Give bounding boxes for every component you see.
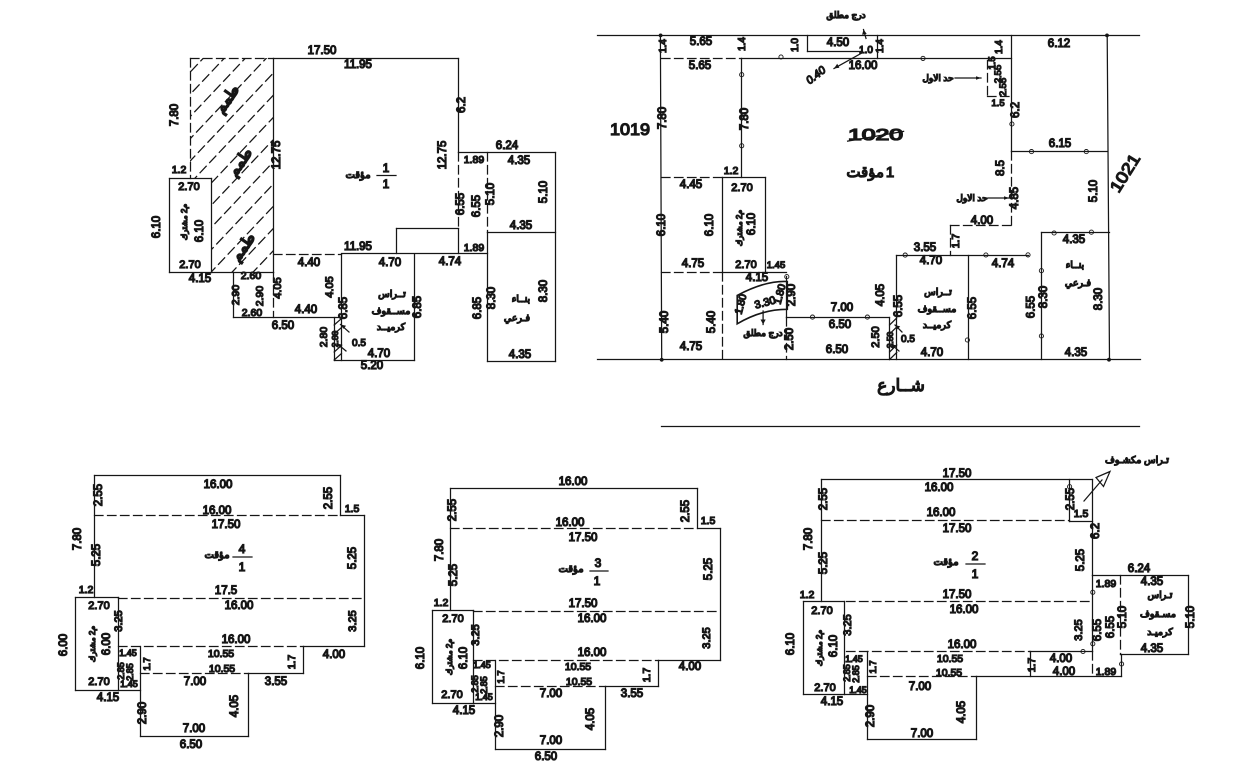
plan3 dashed line 2 bbox=[474, 611, 721, 613]
planA wall hatch ticks bbox=[334, 319, 341, 326]
plan2 dashed line 4 bbox=[868, 676, 977, 678]
svg-text:5.40: 5.40 bbox=[706, 311, 718, 333]
planA line 19 bbox=[234, 317, 343, 319]
plan2 line 18 bbox=[803, 602, 805, 695]
plan2 line 4 bbox=[1092, 480, 1094, 576]
svg-text:6.10: 6.10 bbox=[151, 216, 163, 238]
svg-text:5.25: 5.25 bbox=[818, 552, 830, 574]
svg-text:1.0: 1.0 bbox=[790, 38, 801, 52]
svg-text:2.90: 2.90 bbox=[494, 715, 506, 737]
svg-text:1.4: 1.4 bbox=[994, 40, 1005, 54]
svg-text:2.70: 2.70 bbox=[178, 181, 199, 193]
svg-text:8.5: 8.5 bbox=[995, 160, 1007, 176]
planB line 14 bbox=[722, 178, 724, 273]
svg-text:1.45: 1.45 bbox=[845, 654, 863, 664]
planA dashed line 2 bbox=[190, 59, 192, 179]
svg-text:1.7: 1.7 bbox=[950, 234, 962, 249]
svg-text:2.55: 2.55 bbox=[447, 499, 459, 521]
planA dashed line 1 bbox=[191, 58, 274, 60]
planB dashed line 2 bbox=[987, 61, 989, 97]
svg-text:6.12: 6.12 bbox=[1048, 38, 1070, 50]
svg-text:6.10: 6.10 bbox=[704, 214, 716, 236]
planA line 18 bbox=[233, 273, 235, 318]
svg-text:6.10: 6.10 bbox=[785, 633, 797, 655]
svg-text:4.75: 4.75 bbox=[680, 341, 702, 353]
svg-text:4.85: 4.85 bbox=[1009, 187, 1021, 209]
planB line 23 bbox=[787, 317, 890, 319]
planB boundary dot bbox=[1105, 34, 1109, 38]
plan4 dashed line 2 bbox=[119, 598, 365, 600]
svg-text:7.00: 7.00 bbox=[909, 681, 931, 693]
svg-text:4.50: 4.50 bbox=[827, 37, 849, 49]
planB curved stair bbox=[737, 281, 787, 323]
svg-text:8.30: 8.30 bbox=[1093, 288, 1105, 310]
planB 0.5 arrows bbox=[895, 325, 902, 332]
svg-text:10.55: 10.55 bbox=[565, 661, 591, 673]
svg-text:5.10: 5.10 bbox=[1088, 180, 1100, 202]
svg-text:1.7: 1.7 bbox=[1026, 658, 1038, 673]
plan2 line 6 bbox=[1188, 576, 1190, 655]
svg-text:7.80: 7.80 bbox=[434, 539, 446, 561]
svg-text:1.2: 1.2 bbox=[434, 597, 449, 609]
plan2 line 9 bbox=[1092, 576, 1094, 652]
svg-text:2.90: 2.90 bbox=[137, 702, 149, 724]
plan4 line 10 bbox=[140, 647, 142, 737]
svg-text:4.70: 4.70 bbox=[920, 255, 942, 267]
planB line 5 bbox=[1107, 35, 1109, 359]
svg-text:7.80: 7.80 bbox=[657, 107, 669, 129]
plan3 line 5 bbox=[659, 660, 721, 662]
plan2 line 7 bbox=[1121, 654, 1189, 656]
plan3 line 9 bbox=[496, 749, 606, 751]
svg-text:1.89: 1.89 bbox=[1096, 666, 1117, 678]
svg-text:4.45: 4.45 bbox=[680, 179, 702, 191]
plan2 survey mark bbox=[1068, 485, 1072, 489]
svg-text:6.15: 6.15 bbox=[1049, 138, 1071, 150]
svg-text:3: 3 bbox=[595, 556, 602, 570]
svg-text:م2 مشترك: م2 مشترك bbox=[445, 639, 454, 676]
svg-text:4.15: 4.15 bbox=[97, 692, 119, 704]
svg-text:12.75: 12.75 bbox=[271, 141, 283, 170]
planB dashed line 9 bbox=[722, 273, 724, 360]
svg-text:10.55: 10.55 bbox=[209, 663, 235, 675]
svg-text:8.30: 8.30 bbox=[538, 280, 550, 302]
planB survey mark bbox=[921, 56, 925, 60]
svg-text:1.7: 1.7 bbox=[286, 655, 298, 670]
planB line 4 bbox=[660, 35, 661, 359]
svg-text:11.95: 11.95 bbox=[344, 59, 372, 71]
svg-text:شــارع: شــارع bbox=[877, 376, 925, 396]
svg-text:كرميــد: كرميــد bbox=[377, 322, 406, 333]
svg-text:5.10: 5.10 bbox=[1117, 606, 1129, 628]
svg-text:1.5: 1.5 bbox=[991, 98, 1004, 109]
svg-text:16.00: 16.00 bbox=[556, 517, 585, 529]
plan3 line 13 bbox=[432, 611, 434, 704]
svg-text:1: 1 bbox=[383, 177, 390, 191]
plan4 line 12 bbox=[76, 597, 119, 599]
plan2 line 2 bbox=[1069, 480, 1071, 522]
planA line 3 bbox=[459, 152, 556, 154]
svg-text:3.55: 3.55 bbox=[265, 676, 287, 688]
plan4 line 4 bbox=[364, 516, 366, 647]
svg-text:1.45: 1.45 bbox=[475, 692, 493, 702]
svg-text:1.45: 1.45 bbox=[849, 685, 867, 695]
svg-text:6.55: 6.55 bbox=[893, 295, 905, 317]
svg-text:7.00: 7.00 bbox=[540, 735, 562, 747]
svg-text:1.7: 1.7 bbox=[496, 670, 507, 683]
svg-text:4.35: 4.35 bbox=[508, 155, 530, 167]
svg-text:2.70: 2.70 bbox=[814, 682, 835, 694]
svg-text:2.60: 2.60 bbox=[242, 307, 263, 319]
planB line 15 bbox=[765, 178, 767, 273]
svg-text:2.55: 2.55 bbox=[323, 487, 335, 509]
planB line 18 bbox=[1042, 232, 1110, 234]
plan2 line 10 bbox=[1030, 651, 1093, 653]
svg-text:4.70: 4.70 bbox=[379, 257, 401, 269]
svg-text:فـرعي: فـرعي bbox=[504, 313, 531, 324]
planB dashed line 3 bbox=[988, 96, 1012, 98]
svg-text:6.10: 6.10 bbox=[194, 220, 206, 242]
planA hatch dashed diagonals bbox=[0, 30, 629, 305]
planB survey mark bbox=[1052, 231, 1056, 235]
svg-text:1.89: 1.89 bbox=[464, 154, 485, 166]
plan3 dashed line 4 bbox=[496, 686, 606, 688]
plan2 line 1 bbox=[822, 479, 1093, 481]
plan2 survey mark bbox=[1081, 649, 1085, 653]
svg-text:4.35: 4.35 bbox=[1063, 234, 1085, 246]
svg-text:1.7: 1.7 bbox=[641, 668, 653, 683]
plan2 line 16 bbox=[845, 694, 868, 696]
planB dashed line 8 bbox=[662, 272, 723, 274]
svg-text:4.00: 4.00 bbox=[1050, 653, 1072, 665]
svg-text:11.95: 11.95 bbox=[344, 241, 372, 253]
planB line 22 bbox=[889, 318, 891, 360]
planB survey mark bbox=[1010, 122, 1014, 126]
planB dashed line 5 bbox=[951, 225, 1012, 227]
svg-text:2.90: 2.90 bbox=[254, 286, 266, 307]
planB boundary dot bbox=[660, 358, 664, 362]
planB survey mark bbox=[810, 315, 814, 319]
svg-text:3.25: 3.25 bbox=[113, 610, 125, 631]
svg-text:1.5: 1.5 bbox=[701, 515, 716, 527]
planB line 1 bbox=[598, 35, 1140, 37]
svg-text:1.45: 1.45 bbox=[767, 260, 786, 271]
planB line 9 bbox=[808, 51, 862, 53]
planA dashed line 4 bbox=[487, 153, 489, 233]
plan2 line 15 bbox=[976, 677, 978, 740]
planB dashed line 6 bbox=[950, 226, 952, 256]
svg-text:4.15: 4.15 bbox=[189, 273, 211, 285]
svg-text:1.4: 1.4 bbox=[737, 37, 748, 51]
svg-text:4.05: 4.05 bbox=[229, 695, 241, 717]
svg-text:1: 1 bbox=[594, 574, 601, 588]
plan2 dashed line 6 bbox=[1092, 652, 1094, 677]
svg-text:5.25: 5.25 bbox=[448, 564, 460, 586]
plan2 line 20 bbox=[804, 694, 845, 696]
plan3 line 15 bbox=[433, 703, 474, 705]
svg-text:2.50: 2.50 bbox=[784, 328, 796, 350]
svg-text:5.25: 5.25 bbox=[1075, 549, 1087, 571]
svg-text:2.55: 2.55 bbox=[680, 500, 692, 522]
svg-text:8.30: 8.30 bbox=[1038, 286, 1050, 308]
planA line 14 bbox=[170, 178, 212, 180]
svg-text:16.00: 16.00 bbox=[849, 60, 878, 72]
svg-text:تـراس مكشـوف: تـراس مكشـوف bbox=[1105, 455, 1169, 466]
svg-text:5.25: 5.25 bbox=[703, 558, 715, 580]
plan3 line 16 bbox=[450, 489, 452, 611]
svg-text:مؤقت: مؤقت bbox=[345, 170, 370, 181]
svg-text:16.00: 16.00 bbox=[578, 613, 607, 625]
planA line 21 bbox=[414, 255, 416, 361]
planA line 16 bbox=[211, 179, 213, 273]
planB boundary dot bbox=[659, 34, 663, 38]
svg-text:2.90: 2.90 bbox=[230, 285, 242, 306]
plan4 line 7 bbox=[249, 673, 304, 675]
svg-text:6.2: 6.2 bbox=[1010, 102, 1022, 118]
plan4 line 8 bbox=[248, 674, 250, 737]
svg-text:3.55: 3.55 bbox=[621, 688, 643, 700]
planA line 4 bbox=[555, 153, 557, 362]
svg-text:4.35: 4.35 bbox=[1065, 347, 1087, 359]
planA line 2 bbox=[458, 59, 460, 153]
plan3 line 11 bbox=[474, 703, 496, 705]
svg-text:1.89: 1.89 bbox=[1096, 578, 1117, 590]
planA line 11 bbox=[342, 253, 488, 255]
svg-text:فـرعي: فـرعي bbox=[1065, 278, 1092, 289]
svg-text:1: 1 bbox=[972, 567, 979, 581]
planB survey mark bbox=[984, 253, 988, 257]
planB survey mark bbox=[1039, 269, 1043, 273]
svg-text:3.25: 3.25 bbox=[842, 614, 854, 635]
svg-text:5.10: 5.10 bbox=[538, 181, 550, 203]
planB line 2 bbox=[598, 359, 1141, 361]
plan4 line 3 bbox=[341, 515, 365, 517]
plan4 line 11 bbox=[119, 690, 141, 692]
svg-text:5.65: 5.65 bbox=[689, 60, 711, 72]
svg-text:16.00: 16.00 bbox=[927, 507, 956, 519]
svg-text:5.10: 5.10 bbox=[1185, 606, 1197, 628]
svg-text:2.85: 2.85 bbox=[851, 665, 861, 683]
svg-text:4.74: 4.74 bbox=[992, 258, 1015, 270]
svg-text:6.00: 6.00 bbox=[58, 634, 70, 656]
planA line 8 bbox=[397, 228, 459, 230]
svg-text:درج مطلق: درج مطلق bbox=[743, 328, 782, 339]
svg-text:4.15: 4.15 bbox=[821, 696, 843, 708]
planB wall ticks bbox=[890, 318, 897, 325]
svg-text:2.70: 2.70 bbox=[811, 605, 832, 617]
svg-text:بنــاء: بنــاء bbox=[1066, 260, 1084, 271]
svg-text:4.05: 4.05 bbox=[875, 284, 887, 306]
plan3 dashed line 3 bbox=[474, 660, 659, 662]
svg-text:16.00: 16.00 bbox=[204, 479, 233, 491]
plan3 line 7 bbox=[606, 686, 659, 688]
svg-text:16.00: 16.00 bbox=[925, 482, 954, 494]
planA line 10 bbox=[458, 229, 460, 254]
svg-text:4: 4 bbox=[239, 542, 246, 556]
plan2 line 19 bbox=[844, 602, 846, 695]
svg-text:6.50: 6.50 bbox=[826, 344, 848, 356]
plan2 line 17 bbox=[804, 601, 845, 603]
planB survey mark bbox=[779, 55, 783, 59]
svg-text:2.70: 2.70 bbox=[735, 259, 756, 271]
plan2 dashed line 3 bbox=[847, 651, 1030, 653]
svg-text:3.25: 3.25 bbox=[470, 624, 482, 645]
svg-text:6.85: 6.85 bbox=[472, 297, 484, 319]
plan3 dashed line 1 bbox=[451, 528, 698, 530]
svg-text:4.15: 4.15 bbox=[453, 705, 475, 717]
svg-text:4.70: 4.70 bbox=[368, 348, 390, 360]
plan3 line 6 bbox=[658, 661, 660, 687]
svg-text:10.55: 10.55 bbox=[566, 676, 592, 688]
svg-text:7.00: 7.00 bbox=[184, 676, 206, 688]
planB boundary note1 arrow bbox=[955, 77, 981, 79]
planB boundary note2 arrow bbox=[988, 197, 1009, 199]
plan2 line 5 bbox=[1093, 575, 1189, 577]
planA dashed line 6 bbox=[273, 273, 275, 318]
plan2 line 3 bbox=[1070, 521, 1093, 523]
svg-text:17.50: 17.50 bbox=[212, 519, 241, 531]
svg-text:5.25: 5.25 bbox=[347, 547, 359, 569]
svg-text:تــراس: تــراس bbox=[924, 287, 952, 298]
svg-text:7.00: 7.00 bbox=[540, 688, 562, 700]
svg-text:م2 مشترك: م2 مشترك bbox=[88, 626, 97, 663]
planB dashed line 10 bbox=[786, 318, 788, 360]
svg-text:6.85: 6.85 bbox=[338, 297, 350, 319]
plan2 line 11 bbox=[1030, 652, 1032, 677]
svg-text:2.70: 2.70 bbox=[179, 259, 200, 271]
svg-text:تـراس: تـراس bbox=[1148, 590, 1173, 601]
plan2 line 21 bbox=[821, 480, 823, 602]
svg-text:5.25: 5.25 bbox=[91, 544, 103, 566]
svg-text:17.5: 17.5 bbox=[215, 585, 237, 597]
svg-text:1.45: 1.45 bbox=[119, 648, 137, 658]
svg-text:2.55: 2.55 bbox=[93, 484, 105, 506]
planB line 6 bbox=[742, 58, 1012, 60]
plan4 line 2 bbox=[340, 476, 342, 516]
planB survey mark bbox=[1084, 150, 1088, 154]
planB line 10 bbox=[877, 36, 879, 59]
planA line 5 bbox=[488, 232, 556, 234]
svg-text:16.00: 16.00 bbox=[948, 639, 977, 651]
planA 0.5 arrows bbox=[341, 325, 350, 333]
planB 0.40 arrow bbox=[834, 54, 861, 69]
plan2 survey mark bbox=[1091, 642, 1095, 646]
svg-text:4.35: 4.35 bbox=[1141, 576, 1163, 588]
svg-text:4.74: 4.74 bbox=[439, 256, 462, 268]
planB dashed line 1 bbox=[662, 58, 742, 60]
svg-text:1: 1 bbox=[239, 560, 246, 574]
svg-text:17.50: 17.50 bbox=[569, 598, 598, 610]
svg-text:كرميـد: كرميـد bbox=[1147, 627, 1173, 638]
svg-text:6.10: 6.10 bbox=[458, 647, 470, 669]
planB plot 1020 strike bbox=[848, 131, 904, 141]
svg-text:2.55: 2.55 bbox=[818, 488, 830, 510]
svg-text:مؤقت: مؤقت bbox=[933, 557, 958, 568]
planB boundary dot bbox=[1107, 358, 1111, 362]
planB survey mark bbox=[865, 315, 869, 319]
plan4 dashed line 4 bbox=[141, 673, 249, 675]
svg-text:16.00: 16.00 bbox=[559, 476, 588, 488]
svg-text:2.70: 2.70 bbox=[88, 676, 109, 688]
svg-text:7.00: 7.00 bbox=[831, 302, 853, 314]
svg-text:6.2: 6.2 bbox=[1090, 523, 1102, 539]
svg-text:2.60: 2.60 bbox=[241, 270, 262, 282]
svg-text:6.10: 6.10 bbox=[656, 214, 668, 236]
svg-text:7.80: 7.80 bbox=[803, 528, 815, 550]
planB stair note arrow bbox=[864, 30, 867, 39]
svg-text:1: 1 bbox=[886, 164, 894, 181]
planB line 3 bbox=[662, 426, 1140, 428]
plan4 line 14 bbox=[118, 598, 120, 691]
plan4 line 5 bbox=[304, 646, 365, 648]
svg-text:4.75: 4.75 bbox=[682, 258, 704, 270]
svg-text:4.05: 4.05 bbox=[585, 708, 597, 730]
planB survey mark bbox=[1026, 253, 1030, 257]
planA line 24 bbox=[335, 360, 415, 362]
svg-text:10.55: 10.55 bbox=[936, 667, 962, 679]
svg-text:5.10: 5.10 bbox=[485, 183, 497, 205]
svg-text:5.65: 5.65 bbox=[690, 36, 712, 48]
svg-text:0.5: 0.5 bbox=[352, 338, 366, 349]
svg-text:حد الاول: حد الاول bbox=[956, 193, 987, 204]
svg-text:10.55: 10.55 bbox=[937, 653, 963, 665]
svg-text:1.7: 1.7 bbox=[868, 660, 879, 673]
plan2 dashed line 2 bbox=[847, 601, 1093, 603]
svg-text:4.00: 4.00 bbox=[323, 649, 345, 661]
svg-text:4.40: 4.40 bbox=[295, 304, 317, 316]
svg-text:حد الاول: حد الاول bbox=[922, 73, 953, 84]
plan3 line 8 bbox=[605, 687, 607, 750]
svg-text:7.80: 7.80 bbox=[169, 104, 181, 126]
svg-text:6.2: 6.2 bbox=[456, 97, 468, 113]
svg-text:مســقوف: مســقوف bbox=[372, 306, 411, 317]
planB dashed line 7 bbox=[662, 177, 723, 179]
planA line 15 bbox=[169, 179, 171, 273]
svg-text:6.85: 6.85 bbox=[412, 296, 424, 318]
svg-text:16.00: 16.00 bbox=[225, 600, 254, 612]
svg-text:2: 2 bbox=[972, 549, 979, 563]
svg-text:6.24: 6.24 bbox=[1128, 563, 1151, 575]
svg-text:4.35: 4.35 bbox=[510, 220, 532, 232]
plan2 dashed line 1 bbox=[822, 520, 1070, 522]
svg-text:2.90: 2.90 bbox=[865, 705, 877, 727]
svg-text:0.5: 0.5 bbox=[901, 334, 915, 345]
svg-text:4.40: 4.40 bbox=[298, 257, 320, 269]
svg-text:4.05: 4.05 bbox=[324, 276, 336, 297]
svg-text:1.45: 1.45 bbox=[120, 679, 138, 689]
planA line 7 bbox=[488, 361, 556, 363]
planB survey mark bbox=[1029, 150, 1033, 154]
svg-text:1.0: 1.0 bbox=[859, 45, 873, 56]
svg-text:6.55: 6.55 bbox=[455, 193, 467, 215]
svg-text:6.55: 6.55 bbox=[471, 195, 483, 217]
svg-text:2.55: 2.55 bbox=[1065, 488, 1077, 510]
planA dashed line 5 bbox=[274, 254, 342, 256]
plan3 line 3 bbox=[698, 528, 721, 530]
svg-text:2.70: 2.70 bbox=[88, 600, 109, 612]
svg-text:7.80: 7.80 bbox=[72, 528, 84, 550]
svg-text:10.55: 10.55 bbox=[208, 648, 234, 660]
planB line 13 bbox=[723, 177, 766, 179]
svg-text:3.25: 3.25 bbox=[1073, 619, 1085, 640]
svg-text:1: 1 bbox=[383, 161, 390, 175]
svg-text:مؤقت: مؤقت bbox=[846, 164, 884, 181]
svg-text:4.05: 4.05 bbox=[956, 701, 968, 723]
svg-text:2.80: 2.80 bbox=[318, 327, 330, 348]
plan2 open terrace arrow bbox=[1084, 480, 1102, 501]
svg-text:6.10: 6.10 bbox=[415, 647, 427, 669]
svg-text:درج مطلق: درج مطلق bbox=[826, 10, 865, 21]
